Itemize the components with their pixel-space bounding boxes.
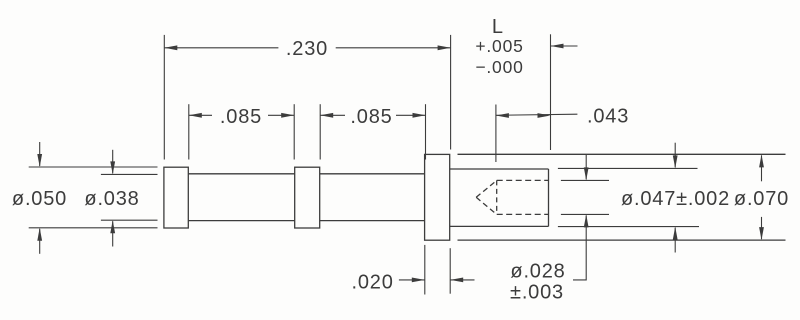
extension line at collar C1 left edge (.230 datum) bbox=[163, 35, 165, 160]
svg-text:+.005: +.005 bbox=[475, 36, 523, 56]
hidden drill step (dashed vertical) bbox=[496, 180, 498, 214]
dimension line .085 first, right segment bbox=[268, 114, 294, 116]
arrowhead dia .047 top (points down) bbox=[673, 155, 678, 168]
wire shaft bottom edge segment 2 bbox=[320, 220, 425, 222]
svg-text:±.003: ±.003 bbox=[510, 282, 564, 304]
extension line dia .028 top right bbox=[561, 179, 609, 181]
extension line at flange right edge / body start (.230, L) bbox=[450, 35, 452, 150]
dimension line .085 second, left segment bbox=[320, 114, 345, 116]
leader shaft dia .038 bottom arrow bbox=[112, 221, 114, 246]
leader shaft dia .028 bottom arrow and leader to label bbox=[573, 215, 586, 280]
hidden drill hole bottom edge (dia .028, dashed) bbox=[497, 213, 549, 215]
extension line at drill step (.043) bbox=[495, 105, 497, 163]
extension line at flange left edge (.085) bbox=[425, 104, 427, 159]
extension line dia .050 top bbox=[29, 166, 158, 168]
arrowhead .020 right (points left) bbox=[450, 278, 463, 283]
svg-text:ø.047±.002: ø.047±.002 bbox=[621, 188, 730, 210]
dimension line L right outside stub bbox=[551, 45, 578, 47]
arrowhead dia .028 top (points down) bbox=[584, 167, 589, 180]
arrowhead dia .070 bottom (points down) bbox=[759, 227, 764, 240]
extension line dia .038 bottom bbox=[101, 219, 158, 221]
arrowhead .085 first left bbox=[189, 113, 202, 118]
extension line flange right (.020) bbox=[449, 248, 451, 294]
extension line dia .050 bottom bbox=[29, 227, 158, 229]
arrowhead L right (points left) bbox=[551, 44, 564, 49]
leader shaft dia .050 top arrow bbox=[39, 142, 41, 166]
collar C2 (middle press ring, dia .050) bbox=[295, 167, 320, 228]
arrowhead .085 second left bbox=[320, 113, 333, 118]
wire shaft bottom edge segment 1 bbox=[188, 220, 294, 222]
extension line dia .038 top bbox=[101, 173, 158, 175]
svg-text:−.000: −.000 bbox=[475, 57, 523, 77]
arrowhead .230 right / L left bbox=[438, 45, 451, 50]
dimension line .230 right segment bbox=[336, 47, 451, 49]
svg-text:.230: .230 bbox=[286, 38, 328, 60]
wire shaft top edge segment 2 bbox=[320, 173, 425, 175]
arrowhead .020 left (points right) bbox=[412, 278, 425, 283]
hidden drill hole top edge (dia .028, dashed) bbox=[497, 179, 549, 181]
socket bottom face (end of bore, depth L) bbox=[548, 169, 550, 226]
dimension line .085 second, right segment bbox=[396, 114, 426, 116]
hidden drill point upper flank (dashed) bbox=[476, 180, 497, 197]
extension line at socket bottom (L, .043) bbox=[550, 34, 552, 150]
leader shaft dia .028 top arrow bbox=[585, 155, 587, 180]
body top edge (dia .070 barrel) bbox=[458, 153, 786, 155]
hidden drill point lower flank (dashed) bbox=[476, 197, 497, 214]
svg-text:L: L bbox=[492, 16, 504, 38]
extension line at collar C1 right edge (.085) bbox=[188, 104, 190, 159]
dimension line .043 with leader to label bbox=[496, 114, 578, 115]
arrowhead dia .038 bottom (points up) bbox=[110, 220, 115, 233]
leader shaft dia .038 top arrow bbox=[112, 150, 114, 174]
extension line at collar C2 left edge (.085) bbox=[293, 104, 295, 159]
arrowhead dia .050 top (points down) bbox=[37, 154, 42, 167]
svg-text:.020: .020 bbox=[352, 272, 394, 294]
extension line at collar C2 right edge (.085) bbox=[319, 104, 321, 159]
socket entry bottom edge (dia .047 bore) bbox=[450, 225, 549, 227]
dimension line .020 right outside stub bbox=[450, 279, 474, 281]
dimension line .230 left segment bbox=[164, 47, 278, 49]
svg-text:ø.038: ø.038 bbox=[84, 188, 139, 210]
wire shaft top edge segment 1 (dia .038) bbox=[188, 173, 294, 175]
arrowhead .043 right bbox=[538, 113, 551, 118]
arrowhead dia .050 bottom (points up) bbox=[37, 228, 42, 241]
arrowhead .230 left bbox=[164, 45, 177, 50]
leader shaft dia .047 bottom arrow bbox=[674, 228, 676, 253]
svg-text:ø.028: ø.028 bbox=[510, 261, 565, 283]
arrowhead .085 first right bbox=[281, 113, 294, 118]
arrowhead dia .028 bottom (points up) bbox=[584, 214, 589, 227]
svg-text:ø.050: ø.050 bbox=[12, 188, 67, 210]
leader shaft dia .070 top arrow bbox=[761, 155, 763, 181]
arrowhead .043 left bbox=[496, 113, 509, 118]
leader shaft dia .070 bottom arrow bbox=[761, 217, 763, 239]
leader shaft dia .050 bottom arrow bbox=[39, 229, 41, 254]
arrowhead dia .070 top (points up) bbox=[759, 154, 764, 167]
arrowhead dia .038 top (points down) bbox=[110, 161, 115, 174]
arrowhead .085 second right bbox=[413, 113, 426, 118]
arrowhead dia .047 bottom (points up) bbox=[673, 227, 678, 240]
svg-text:.085: .085 bbox=[220, 106, 262, 128]
svg-text:.043: .043 bbox=[587, 105, 629, 127]
extension line dia .047 bottom right bbox=[558, 226, 699, 228]
flange (shoulder ring, thickness .020) bbox=[425, 154, 450, 240]
svg-text:.085: .085 bbox=[350, 106, 392, 128]
extension line flange left (.020) bbox=[424, 245, 426, 295]
extension line dia .047 top right bbox=[558, 167, 698, 169]
leader shaft dia .047 top arrow bbox=[674, 143, 676, 168]
collar C1 (left press ring, dia .050) bbox=[164, 167, 188, 228]
dimension line .020 left outside stub bbox=[399, 279, 425, 281]
body bottom edge (dia .070 barrel) bbox=[458, 239, 786, 241]
socket entry top edge (dia .047 bore) bbox=[450, 168, 549, 170]
dimension line .085 first, left segment bbox=[189, 114, 212, 116]
svg-text:ø.070: ø.070 bbox=[734, 188, 789, 210]
extension line dia .028 bottom right bbox=[561, 213, 609, 215]
